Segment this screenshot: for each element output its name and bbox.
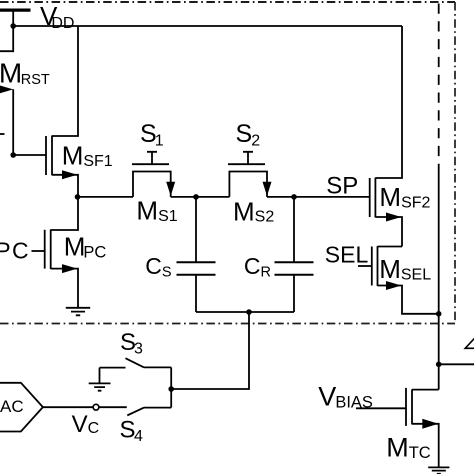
transistor M_PC drain <box>51 197 78 230</box>
transistor M_SF2 drain <box>375 26 402 178</box>
transistor M_SF1 gate bar <box>45 136 47 175</box>
wire cap bottom rail <box>196 311 294 313</box>
pixel boundary dash-dot box bottom edge <box>0 323 455 325</box>
wire S3 left terminal <box>100 367 126 369</box>
node CS top dot <box>193 194 199 200</box>
capacitor C_S plates <box>177 262 216 275</box>
transistor M_S1 body <box>133 172 171 197</box>
wire rail down to switches <box>171 312 249 389</box>
transistor M_SEL source <box>378 286 439 314</box>
wire M_S2 to M_SF2 gate (SP node) <box>267 196 370 198</box>
wire S4 left terminal <box>99 406 127 408</box>
wire SEL gate stub <box>358 265 372 267</box>
transistor M_SF2 gate bar <box>369 178 371 217</box>
svg-text:PC: PC <box>0 238 30 264</box>
wire S4 right terminal <box>144 407 171 409</box>
capacitor C_R plates <box>275 262 314 275</box>
transistor M_SF1 drain <box>52 26 78 136</box>
ground below M_PC <box>66 308 90 316</box>
transistor M_S2 gate plate <box>228 163 265 165</box>
transistor M_SF1 channel bar <box>51 136 53 176</box>
wire CS bottom stem <box>195 275 197 312</box>
transistor M_PC source arrow <box>62 264 77 273</box>
wire PC gate lead <box>32 250 45 252</box>
transistor M_SF2 source arrow <box>386 213 401 222</box>
transistor M_SEL source arrow <box>386 281 401 290</box>
transistor M_PC channel bar <box>50 229 52 269</box>
ground below M_TC <box>428 467 449 473</box>
ground for S3 <box>89 368 111 391</box>
VDD supply bar <box>0 9 31 12</box>
transistor M_TC drain <box>412 389 439 391</box>
wire DAC to VC <box>43 406 93 408</box>
column bus dashed segment <box>438 4 440 165</box>
transistor M_TC source arrow <box>422 419 438 429</box>
wire CR top stem <box>293 197 295 262</box>
pixel boundary dash-dot box right edge <box>454 2 456 324</box>
svg-text:SP: SP <box>326 173 358 200</box>
wire M_RST source down to FD node <box>12 89 14 155</box>
transistor M_S1 arrow <box>166 182 175 196</box>
transistor M_SF2 channel bar <box>374 178 376 218</box>
node SF1 source dot <box>75 194 81 200</box>
wire node1 to M_S1 <box>78 196 134 198</box>
svg-text:SEL: SEL <box>325 241 369 267</box>
wire VDD rail <box>13 25 402 27</box>
wire M_S1 to node CS <box>171 196 230 198</box>
left edge tick <box>0 133 5 135</box>
transistor M_SEL drain <box>378 246 403 248</box>
node SP dot <box>291 194 297 200</box>
node FD junction dot <box>10 152 16 158</box>
column bus solid segment <box>438 164 440 390</box>
transistor M_S2 gate stem <box>243 152 253 164</box>
transistor M_RST source arrow <box>0 85 13 94</box>
wire FD to M_SF1 gate <box>13 154 46 156</box>
wire switch junction vertical <box>170 367 172 407</box>
switch S4 arm <box>127 408 144 416</box>
wire VDD bar to rail <box>12 10 14 26</box>
node rail junction dot <box>246 309 252 315</box>
switch S3 arm <box>126 358 145 367</box>
wire column output to right <box>439 363 474 365</box>
transistor M_SF2 source <box>375 217 402 247</box>
DAC symbol <box>0 383 43 432</box>
transistor M_SF1 source arrow <box>62 170 77 179</box>
transistor M_S1 gate stem <box>147 152 157 164</box>
pixel boundary dash-dot box top edge <box>0 1 455 3</box>
transistor M_SEL gate bar <box>371 247 373 286</box>
wire V_BIAS lead <box>356 407 406 409</box>
transistor M_SF1 source <box>52 175 78 197</box>
svg-text:DAC: DAC <box>0 397 24 416</box>
transistor M_TC gate bar <box>405 388 407 426</box>
transistor M_PC gate bar <box>44 230 46 269</box>
node column-SEL dot <box>436 311 442 317</box>
transistor M_TC channel bar <box>411 389 413 424</box>
wire M_RST drain to VDD <box>0 26 13 51</box>
wire CR bottom stem <box>293 275 295 312</box>
wire CS top stem <box>195 197 197 262</box>
transistor M_S2 arrow <box>263 182 272 196</box>
node VDD junction dot <box>10 23 16 29</box>
node column output dot <box>436 362 442 368</box>
transistor M_S2 body <box>229 172 267 197</box>
transistor M_S1 gate plate <box>132 163 169 165</box>
amplifier triangle (clipped at edge) <box>465 338 474 349</box>
transistor M_SEL channel bar <box>377 246 379 286</box>
wire S3 right terminal <box>144 366 171 368</box>
node VC open circle <box>93 404 99 410</box>
transistor M_PC source <box>51 269 78 308</box>
node switch junction dot <box>168 386 174 392</box>
transistor M_TC source <box>412 424 439 467</box>
